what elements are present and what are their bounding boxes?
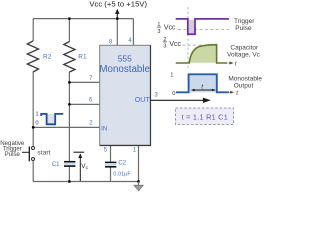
trigger pulse waveform bbox=[176, 19, 229, 34]
svg-text:R2: R2 bbox=[43, 53, 52, 60]
svg-text:3: 3 bbox=[163, 44, 166, 50]
svg-text:1: 1 bbox=[170, 72, 173, 78]
svg-text:t: t bbox=[235, 62, 237, 68]
junction node at Vcc arrow bbox=[116, 17, 119, 20]
dashed 2/3 Vcc level line bbox=[182, 44, 216, 46]
svg-text:1: 1 bbox=[133, 147, 137, 153]
wire pin 7 bbox=[69, 81, 99, 83]
wire pin 1 bbox=[138, 145, 140, 181]
svg-text:Monostable: Monostable bbox=[99, 64, 150, 75]
svg-text:C2: C2 bbox=[118, 161, 126, 167]
svg-text:5: 5 bbox=[104, 148, 108, 154]
svg-text:1: 1 bbox=[35, 111, 38, 117]
svg-text:7: 7 bbox=[89, 76, 93, 82]
junction node at R1 top bbox=[68, 17, 71, 20]
svg-text:OUT: OUT bbox=[135, 95, 151, 104]
junction node pin1 ground bbox=[137, 180, 140, 183]
dashed 1/3 Vcc level line bbox=[178, 28, 229, 30]
formula box t = 1.1 R1 C1 bbox=[176, 108, 234, 125]
svg-text:Pulse: Pulse bbox=[5, 151, 21, 158]
resistor R2 bbox=[27, 41, 38, 72]
svg-text:Pulse: Pulse bbox=[235, 25, 252, 32]
wire C2 to ground rail bbox=[110, 167, 112, 181]
capacitor C1 bbox=[64, 161, 75, 167]
monostable output waveform bbox=[176, 74, 234, 94]
wire pin 2 trigger bbox=[33, 126, 100, 128]
ground symbol bbox=[134, 182, 143, 191]
junction node trigger branch bbox=[32, 126, 35, 129]
Capacitor Voltage caption bbox=[227, 44, 261, 58]
wire left vertical (R2 branch) bbox=[32, 19, 34, 182]
Vc measurement arrow bbox=[74, 152, 85, 181]
wire pin 8 bbox=[116, 19, 118, 46]
wire pin 4 bbox=[132, 19, 134, 46]
junction node pin 7 bbox=[68, 81, 71, 84]
wire top supply rail bbox=[33, 18, 133, 20]
svg-text:0: 0 bbox=[172, 91, 175, 97]
svg-text:t: t bbox=[236, 91, 238, 97]
1/3 Vcc label bbox=[157, 22, 176, 35]
Trigger Pulse caption bbox=[234, 18, 255, 32]
svg-text:2: 2 bbox=[89, 120, 93, 126]
wire pin 6 bbox=[69, 103, 99, 105]
svg-text:R1: R1 bbox=[78, 54, 87, 61]
Negative Trigger Pulse caption bbox=[0, 140, 25, 158]
svg-text:555: 555 bbox=[118, 54, 132, 64]
op IC U1 555 box bbox=[100, 45, 151, 145]
svg-text:6: 6 bbox=[89, 98, 93, 104]
negative trigger pulse icon bbox=[41, 114, 63, 124]
svg-text:t = 1.1 R1 C1: t = 1.1 R1 C1 bbox=[182, 112, 228, 121]
svg-text:3: 3 bbox=[157, 29, 160, 35]
wire bottom ground rail bbox=[33, 181, 139, 183]
wire pin 5 to C2 bbox=[110, 145, 112, 161]
resistor R1 bbox=[64, 42, 75, 73]
svg-text:8: 8 bbox=[109, 39, 113, 45]
svg-text:Trigger: Trigger bbox=[234, 18, 255, 25]
capacitor C2 bbox=[105, 162, 116, 168]
svg-text:C1: C1 bbox=[52, 162, 60, 168]
push button start switch bbox=[22, 147, 35, 162]
svg-text:0.01μF: 0.01μF bbox=[113, 172, 131, 178]
svg-text:Vcc (+5 to +15V): Vcc (+5 to +15V) bbox=[89, 0, 147, 9]
svg-text:Output: Output bbox=[234, 83, 254, 90]
pulse width t arrow bbox=[191, 89, 216, 92]
svg-text:4: 4 bbox=[128, 38, 132, 44]
wire R1/threshold vertical bbox=[68, 19, 70, 182]
capacitor voltage waveform bbox=[176, 45, 234, 65]
svg-text:0: 0 bbox=[35, 120, 38, 126]
2/3 Vcc label bbox=[163, 37, 182, 50]
output wire arrow from pin 3 bbox=[151, 98, 211, 103]
svg-text:Vcc: Vcc bbox=[164, 25, 176, 32]
dashed timing reference vertical line bbox=[187, 7, 189, 70]
svg-text:Vc: Vc bbox=[81, 163, 88, 171]
svg-text:3: 3 bbox=[154, 93, 158, 99]
junction node pin 6 bbox=[68, 103, 71, 106]
svg-text:IN: IN bbox=[101, 125, 107, 132]
Vcc power arrow bbox=[115, 9, 119, 19]
Monostable Output caption bbox=[228, 76, 262, 90]
svg-text:Voltage, Vc: Voltage, Vc bbox=[227, 51, 261, 58]
svg-text:Capacitor: Capacitor bbox=[230, 44, 259, 51]
svg-text:Monostable: Monostable bbox=[228, 76, 262, 83]
junction node C1 ground bbox=[68, 180, 71, 183]
svg-text:Vcc: Vcc bbox=[169, 41, 181, 48]
svg-text:start: start bbox=[37, 149, 50, 156]
